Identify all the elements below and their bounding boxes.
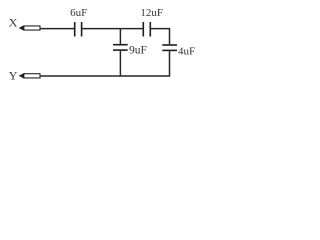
capacitor C1 6uF plates: [74, 22, 76, 37]
svg-text:4uF: 4uF: [178, 45, 195, 57]
wire: bottom rail Y to 4uF branch: [40, 75, 170, 77]
svg-text:12uF: 12uF: [140, 7, 163, 19]
terminal Y off-page connector: [20, 74, 40, 78]
svg-text:X: X: [9, 16, 18, 30]
svg-text:6uF: 6uF: [70, 7, 87, 19]
terminal X off-page connector: [20, 26, 40, 30]
wire: 9uF branch top stub: [119, 29, 121, 44]
wire: 9uF branch bottom stub: [119, 51, 121, 76]
wire: top rail X to C1: [40, 28, 74, 30]
wire: top rail C1 to C2: [82, 28, 143, 30]
wire: top rail C2 to right corner, down to C3: [151, 29, 170, 45]
svg-text:Y: Y: [9, 69, 18, 83]
capacitor C3 4uF plates: [162, 44, 177, 46]
capacitor C2 12uF plates: [142, 22, 144, 37]
svg-text:9uF: 9uF: [129, 45, 147, 57]
wire: 4uF branch bottom stub: [169, 51, 171, 76]
capacitor C4 9uF plates: [113, 44, 128, 46]
background: [0, 0, 199, 89]
